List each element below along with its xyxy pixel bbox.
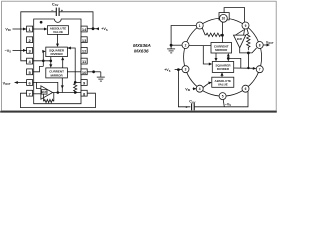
svg-text:7: 7: [259, 68, 261, 72]
wire SQ to CM feedback vertical: [227, 55, 229, 62]
arrow into SQUARER DIVIDER left: [42, 50, 45, 53]
wire ground rail to pin 2: [171, 44, 182, 46]
wire feedback U: pin 6 to output and minus input: [33, 82, 58, 92]
svg-text:4: 4: [199, 87, 201, 91]
pin 12 box: [81, 48, 87, 54]
junction feedback to buffer branch: [227, 57, 230, 60]
pin 8 circle: [256, 42, 263, 49]
junction RL to output wire: [74, 91, 77, 94]
svg-text:DIVIDER: DIVIDER: [217, 67, 230, 71]
arrow into pin 1: [23, 28, 26, 31]
pin 3 circle: [182, 66, 189, 73]
junction bus right: [50, 60, 53, 63]
border frame: [0, 1, 277, 112]
wire CURRENT MIRROR bottom to output node: [61, 78, 63, 93]
pin 5 box: [27, 69, 33, 75]
wire pin 9 to buffer left input: [236, 30, 244, 35]
can tab at pin 10: [219, 13, 229, 20]
pin 4 box: [27, 58, 33, 64]
pin 9 circle: [242, 22, 249, 29]
wire ABSOLUTE VALUE to SQUARER DIVIDER: [57, 34, 59, 45]
arrow into CURRENT MIRROR bottom: [227, 53, 230, 56]
arrow into pin 7: [253, 67, 257, 70]
svg-text:BUF: BUF: [237, 37, 243, 41]
svg-text:MX636: MX636: [134, 49, 149, 54]
pin 13 box: [81, 37, 87, 43]
junction buffer output node: [247, 52, 250, 55]
pin 10 circle: [220, 14, 228, 22]
wire pin 10 to CURRENT MIRROR: [221, 22, 223, 43]
op-amp U2 buffer triangle: [41, 86, 53, 99]
wire CURRENT MIRROR to SQUARER DIVIDER feedback: [62, 59, 64, 68]
block: SQUARER DIVIDER: [46, 47, 68, 57]
arrow into SQUARER DIVIDER top: [215, 58, 218, 61]
wire CAV right to +VS node: [59, 12, 93, 29]
svg-text:10: 10: [222, 17, 226, 21]
wire pin 1 to ABSOLUTE VALUE: [33, 28, 45, 30]
svg-text:VALUE: VALUE: [53, 30, 63, 34]
wire pin 6 to VOUT: [15, 82, 27, 84]
wire VIN to pin 1: [13, 28, 27, 30]
pin 6 box: [27, 80, 33, 86]
arrow down on CM output: [61, 85, 64, 88]
svg-text:8: 8: [259, 43, 261, 47]
svg-text:2: 2: [185, 43, 187, 47]
resistor feedback (right diagram, vertical): [247, 29, 250, 51]
junction zigzag to pin 10 rail: [221, 34, 224, 37]
svg-text:3: 3: [185, 68, 187, 72]
pin 11 box: [81, 58, 87, 64]
IC U3 TO-100 can outline: [184, 18, 262, 96]
svg-text:DIVIDER: DIVIDER: [51, 52, 64, 56]
block: ABSOLUTE VALUE: [48, 26, 69, 35]
wire CAV left rail (right diagram): [178, 70, 190, 107]
wire ground rail to pin 1: [171, 26, 196, 49]
wire pin 14 to +VS: [87, 28, 99, 30]
arrow into ABSOLUTE VALUE left: [208, 82, 212, 85]
junction bus left: [42, 60, 45, 63]
wire CURRENT MIRROR to pin 10: [67, 71, 81, 73]
pin 7 box: [27, 90, 33, 96]
wire CAV left rail to pin 4: [21, 12, 57, 61]
resistor R25k pin1 to pin10 rail: [202, 28, 222, 36]
svg-text:BUF: BUF: [42, 90, 48, 94]
svg-text:13: 13: [82, 38, 87, 43]
junction on ground wire: [92, 70, 95, 73]
wire CAV to pin 6: [194, 92, 248, 107]
wire branch to pin 7 net: [228, 58, 241, 68]
resistor RL (internal, vertical): [74, 83, 77, 93]
wire SQUARER DIVIDER right to pin 7: [234, 67, 256, 69]
arrow into ABSOLUTE VALUE: [44, 28, 47, 31]
wire pin 4 to ABSOLUTE VALUE: [203, 82, 210, 87]
junction op-amp output: [57, 91, 60, 94]
block: SQUARER DIVIDER (right): [212, 62, 233, 73]
wire tab to pin 9: [224, 8, 245, 22]
svg-text:10: 10: [82, 70, 87, 75]
svg-text:9: 9: [245, 24, 247, 28]
arrow into SQUARER DIVIDER left (right diagram): [209, 63, 212, 66]
wire ABSOLUTE VALUE to SQUARER DIVIDER (up): [221, 73, 223, 77]
arrow into pin 4: [193, 87, 196, 90]
arrow into CURRENT MIRROR top: [49, 64, 52, 67]
arrow +VS: [96, 27, 99, 30]
arrow into pin 3: [23, 49, 26, 52]
svg-text:MX536A: MX536A: [133, 43, 151, 48]
pin 8 box: [81, 90, 87, 96]
wire SQUARER DIVIDER right to pin 9 rail: [67, 48, 75, 82]
wire pin 9 to buffer right input: [244, 29, 245, 35]
wire VIN to pin 4: [193, 88, 197, 90]
junction +VS node: [92, 27, 95, 30]
junction pin 9 rail: [74, 81, 77, 84]
block: CURRENT MIRROR: [46, 68, 68, 78]
wire pin 8 to VOUT: [263, 44, 266, 46]
wire bus to SQUARER DIVIDER left input: [42, 51, 45, 66]
junction on pin 7 net: [247, 67, 249, 69]
svg-text:6: 6: [245, 87, 247, 91]
junction +VS / CAV: [177, 68, 180, 71]
junction ground rail: [170, 44, 173, 47]
wire pin 10 to ground: [87, 71, 101, 73]
svg-text:MIRROR: MIRROR: [51, 73, 64, 77]
wire -VS to pin 3: [13, 49, 27, 51]
svg-text:14: 14: [82, 27, 87, 32]
pin 3 box: [27, 48, 33, 54]
svg-text:VALUE: VALUE: [218, 83, 228, 87]
svg-text:5: 5: [222, 94, 224, 98]
resistor feedback (zigzag under op-amp): [44, 93, 54, 103]
wire +VS to pin 3: [175, 69, 183, 71]
op-amp BUF label box: [41, 90, 47, 95]
arrow into SQUARER DIVIDER top: [56, 44, 59, 47]
wire pin 9: [75, 82, 81, 84]
wire output node to pin 8: [248, 48, 256, 53]
pin 4 circle: [196, 85, 203, 92]
ground symbol (right diagram): [167, 49, 175, 53]
arrow into SQUARER DIVIDER bottom: [61, 57, 64, 60]
wire op-amp output to pin 8: [53, 92, 81, 94]
svg-text:1: 1: [199, 24, 201, 28]
pin 6 circle: [242, 85, 249, 92]
pin 2 box: [27, 37, 33, 43]
pin 10 box: [81, 69, 87, 75]
pin 1 marker dot: [40, 21, 43, 24]
pin 5 circle: [219, 93, 226, 100]
wire pin 5 to -VS stub: [223, 100, 224, 107]
capacitor CAV plates: [56, 8, 59, 16]
block: ABSOLUTE VALUE (right): [212, 77, 234, 87]
svg-text:12: 12: [82, 49, 87, 54]
pin 14 box: [81, 26, 87, 32]
pin 7 circle: [256, 66, 263, 73]
arrow out of pin 6 (VOUT): [14, 81, 17, 84]
svg-text:CAV: CAV: [52, 2, 59, 7]
wire pin 4 averaging bus: [33, 60, 51, 62]
wire output node down to pin 7 net: [247, 53, 249, 68]
wire CM left branch to SQUARER DIVIDER left: [203, 46, 210, 64]
pin 9 box: [81, 80, 87, 86]
pin 1 circle: [196, 22, 203, 29]
pin 1 box: [27, 26, 33, 32]
svg-text:MIRROR: MIRROR: [215, 48, 228, 52]
wire buffer apex to output node: [240, 48, 249, 53]
wire pin 7 to pin 8 feedback loop: [21, 93, 96, 107]
IC U1 DIP-14 package outline: [34, 19, 81, 104]
capacitor CAV plates (right diagram): [192, 103, 195, 110]
wire pin 5 to bus node: [33, 66, 44, 71]
pin 2 circle: [182, 42, 189, 49]
wire SQUARER DIVIDER to CURRENT MIRROR: [50, 57, 52, 66]
op-amp U4 buffer triangle (down): [234, 35, 246, 48]
wire pin 2 to CURRENT MIRROR left: [189, 45, 211, 47]
ground symbol: [97, 72, 105, 81]
wire pin 7 to plus input: [33, 93, 41, 95]
block: CURRENT MIRROR (right): [211, 43, 232, 54]
arrow VOUT (right diagram): [267, 44, 270, 47]
arrow into SQUARER DIVIDER bottom (up): [221, 72, 224, 75]
arrow into SQUARER DIVIDER right: [68, 47, 71, 50]
wire CM to SQ left vertical: [215, 53, 217, 60]
